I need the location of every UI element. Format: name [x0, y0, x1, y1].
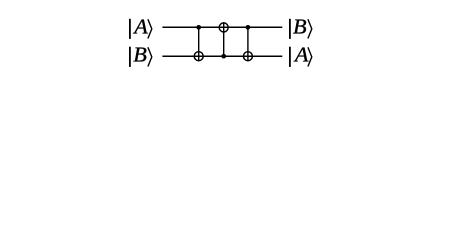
wire vertical connector CNOT 1 — [198, 27, 200, 61]
svg-text:B: B — [133, 43, 147, 66]
ket label |A> (top left input) — [129, 15, 152, 39]
svg-text:A: A — [132, 15, 148, 38]
target XOR CNOT 1 (bottom wire) — [194, 52, 203, 61]
svg-text:A: A — [293, 43, 309, 66]
target XOR CNOT 3 (bottom wire) — [243, 52, 252, 61]
control dot CNOT 1 (top wire) — [196, 25, 201, 30]
wire vertical connector CNOT 2 — [223, 22, 225, 56]
wire top qubit — [162, 26, 282, 28]
target XOR CNOT 2 (top wire) — [219, 23, 228, 32]
control dot CNOT 2 (bottom wire) — [221, 54, 226, 59]
ket label |B> (top right output) — [289, 15, 312, 39]
ket label |A> (bottom right output) — [289, 43, 312, 67]
wire vertical connector CNOT 3 — [247, 27, 249, 61]
control dot CNOT 3 (top wire) — [246, 25, 251, 30]
ket label |B> (bottom left input) — [129, 43, 152, 67]
wire bottom qubit — [162, 55, 282, 57]
svg-text:B: B — [293, 15, 307, 38]
